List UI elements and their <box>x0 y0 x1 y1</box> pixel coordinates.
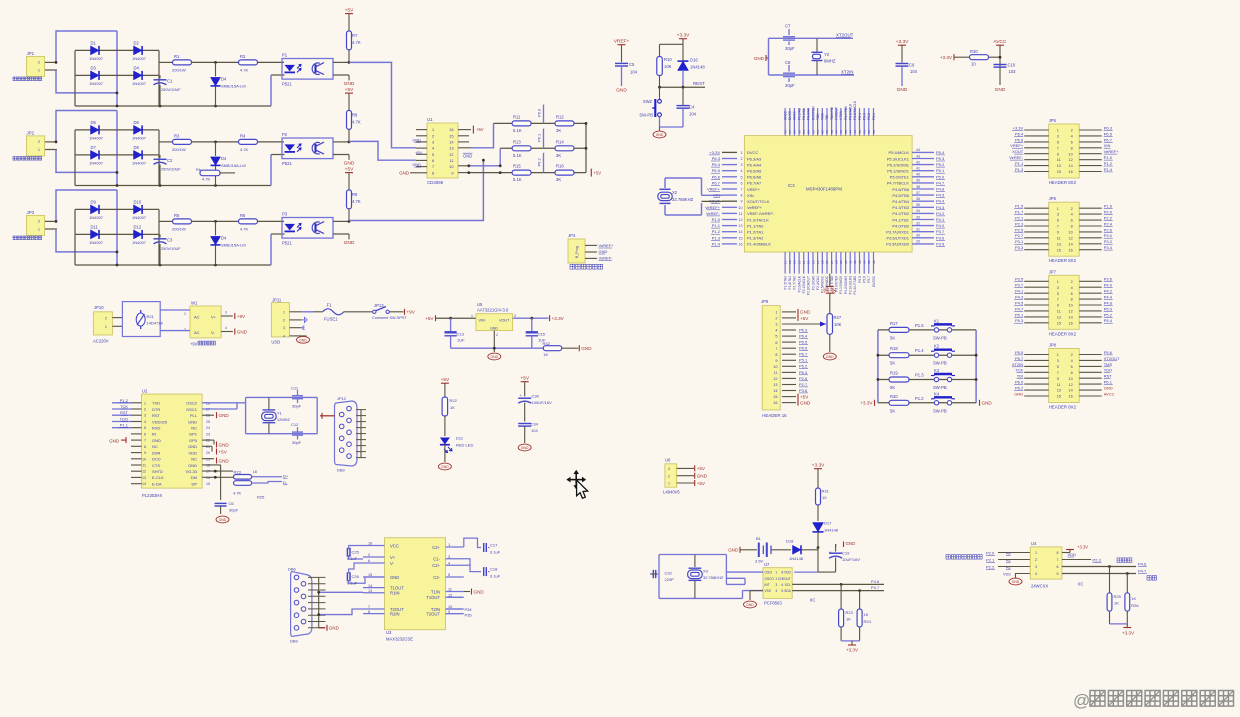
wire MCU left pin 3 <box>722 164 737 166</box>
svg-text:3: 3 <box>740 163 742 167</box>
svg-text:R21: R21 <box>147 314 155 319</box>
svg-text:29: 29 <box>916 240 920 244</box>
svg-text:P521: P521 <box>282 240 292 245</box>
svg-text:5.1K: 5.1K <box>513 153 522 158</box>
svg-text:P5.2/SOMI1: P5.2/SOMI1 <box>887 162 910 167</box>
wire usb gnd <box>301 335 306 338</box>
wire header pin row <box>1024 225 1049 227</box>
svg-text:+5V: +5V <box>345 7 354 13</box>
resistor R14 <box>555 146 574 151</box>
svg-text:AC220V: AC220V <box>93 339 109 344</box>
svg-text:38: 38 <box>916 185 920 189</box>
svg-text:1N4148: 1N4148 <box>824 528 839 533</box>
svg-text:P5.3/UCLK1: P5.3/UCLK1 <box>887 156 910 161</box>
svg-text:P4.5: P4.5 <box>936 193 945 198</box>
svg-text:C4: C4 <box>689 105 695 110</box>
svg-text:3: 3 <box>1057 213 1059 217</box>
svg-text:P5.6: P5.6 <box>1104 350 1113 355</box>
svg-text:22: 22 <box>807 260 811 264</box>
wire header pin row <box>1024 165 1049 167</box>
svg-text:46: 46 <box>839 130 843 134</box>
svg-text:P6.4: P6.4 <box>712 162 721 167</box>
svg-text:C2-: C2- <box>433 575 440 580</box>
wire <box>660 43 684 45</box>
wire header pin row <box>1024 389 1049 391</box>
svg-text:D-: D- <box>283 480 288 485</box>
wire MCU top pin <box>817 108 819 136</box>
crystal Y1 12MHZ loop <box>202 402 246 404</box>
svg-text:P4.1/TB1: P4.1/TB1 <box>892 217 909 222</box>
ground usb <box>297 336 310 343</box>
svg-text:2: 2 <box>38 140 40 144</box>
svg-text:3: 3 <box>432 140 434 145</box>
svg-text:11: 11 <box>1057 383 1061 387</box>
wire rtc osc pins <box>726 571 763 573</box>
wire k row <box>878 354 976 356</box>
svg-text:P6.6: P6.6 <box>799 346 808 351</box>
svg-text:P521: P521 <box>282 81 292 86</box>
ground u5 <box>493 331 495 352</box>
svg-text:P4.6: P4.6 <box>1138 561 1147 566</box>
svg-text:GP1: GP1 <box>189 432 198 437</box>
wire header pin row <box>1024 207 1049 209</box>
power +9V sw <box>404 309 406 315</box>
svg-text:P1.4: P1.4 <box>712 241 721 246</box>
power +3.3V u4 <box>1062 552 1070 554</box>
svg-text:28: 28 <box>835 260 839 264</box>
svg-text:AVSS: AVSS <box>793 111 797 120</box>
resistor R16 <box>555 170 574 175</box>
svg-text:JP3: JP3 <box>27 210 35 215</box>
svg-text:4.7K: 4.7K <box>233 491 242 496</box>
button K4 SW-PB <box>934 401 938 405</box>
wire U2 left pin <box>131 464 142 466</box>
svg-text:250V/10UF: 250V/10UF <box>161 87 181 92</box>
wire u5 out <box>513 317 549 319</box>
svg-text:P4.4: P4.4 <box>936 199 945 204</box>
svg-text:+3.3V: +3.3V <box>677 33 690 39</box>
resistor pack R24 <box>234 475 252 480</box>
svg-text:P6.4: P6.4 <box>1015 131 1024 136</box>
wire xt2 loop <box>768 38 770 75</box>
svg-text:16: 16 <box>1068 395 1072 399</box>
svg-text:RST: RST <box>120 410 129 415</box>
svg-text:250V/10UF: 250V/10UF <box>161 246 181 251</box>
svg-text:1: 1 <box>740 151 742 155</box>
wire header pin row <box>1024 365 1049 367</box>
svg-text:P4.4/TB4: P4.4/TB4 <box>892 199 909 204</box>
wire u3 left stub <box>363 613 385 615</box>
svg-text:GND: GND <box>800 310 811 315</box>
svg-text:P2.2: P2.2 <box>1104 216 1113 221</box>
svg-text:P5.7: P5.7 <box>867 276 871 283</box>
wire JP9 pin row <box>782 390 796 392</box>
svg-text:18: 18 <box>206 464 210 468</box>
svg-text:6: 6 <box>1071 141 1073 145</box>
svg-text:K2: K2 <box>934 344 940 349</box>
svg-text:@: @ <box>1073 691 1090 710</box>
wire k row <box>878 379 976 381</box>
capacitor C10 <box>994 64 1007 66</box>
svg-text:P5.1/SIMO1: P5.1/SIMO1 <box>887 169 910 174</box>
svg-text:USB: USB <box>271 340 280 345</box>
power GND u2 pin18 <box>202 458 214 460</box>
svg-text:D+: D+ <box>283 474 289 479</box>
svg-text:17: 17 <box>783 260 787 264</box>
svg-text:5: 5 <box>775 335 777 339</box>
svg-text:D4: D4 <box>221 76 227 81</box>
svg-text:4.7K: 4.7K <box>240 147 249 152</box>
svg-text:JP9: JP9 <box>761 299 769 304</box>
wire <box>116 31 118 106</box>
svg-text:P5.5: P5.5 <box>858 276 862 283</box>
svg-text:P3.6: P3.6 <box>799 388 808 393</box>
wire header pin row <box>1024 249 1049 251</box>
svg-text:PCF8563: PCF8563 <box>764 601 782 606</box>
wire u3 left stub <box>363 576 385 578</box>
svg-text:GND: GND <box>463 154 472 159</box>
wire u3 right stub <box>446 608 464 610</box>
svg-text:33: 33 <box>858 260 862 264</box>
svg-text:27: 27 <box>830 260 834 264</box>
svg-text:P2.0/ACLK: P2.0/ACLK <box>797 275 801 292</box>
connector JP2 <box>27 136 45 156</box>
svg-text:+3.3V: +3.3V <box>1122 631 1135 636</box>
svg-text:TXD: TXD <box>152 401 160 406</box>
svg-text:15: 15 <box>1057 170 1061 174</box>
wire <box>74 130 76 186</box>
wire MCU left pin 4 <box>722 170 737 172</box>
capacitor C34 104 <box>518 423 531 425</box>
svg-text:P1.2: P1.2 <box>1104 161 1113 166</box>
wire header pin row <box>1024 213 1049 215</box>
svg-text:P4.2: P4.2 <box>936 211 945 216</box>
svg-text:31: 31 <box>849 260 853 264</box>
svg-text:V-: V- <box>211 330 215 335</box>
ground c6 <box>216 516 229 523</box>
svg-text:R20: R20 <box>890 394 898 399</box>
wire u3 left stub <box>363 608 385 610</box>
svg-text:AVCC: AVCC <box>783 110 787 120</box>
wire MCU bottom pin <box>803 252 805 274</box>
svg-text:TCK: TCK <box>1015 368 1023 373</box>
svg-text:R7: R7 <box>352 33 358 38</box>
svg-text:P1.3/TA2: P1.3/TA2 <box>747 236 764 241</box>
power GND r32 <box>578 345 580 351</box>
svg-text:16: 16 <box>1068 248 1072 252</box>
svg-text:P6.5: P6.5 <box>799 340 808 345</box>
svg-text:GND: GND <box>1104 386 1113 391</box>
svg-text:JP12: JP12 <box>337 396 347 401</box>
wire JP9 pin row <box>782 384 796 386</box>
wire header pin row <box>1024 310 1049 312</box>
svg-text:14: 14 <box>1068 316 1072 320</box>
svg-text:D8: D8 <box>134 145 140 150</box>
svg-text:P4.3/TB3: P4.3/TB3 <box>892 205 909 210</box>
svg-text:P2.2: P2.2 <box>986 565 995 570</box>
label P1.1 <box>112 427 131 429</box>
svg-text:VREF-/VeREF-: VREF-/VeREF- <box>747 211 775 216</box>
svg-text:+5V: +5V <box>800 316 809 321</box>
svg-text:JP8: JP8 <box>1049 343 1057 348</box>
svg-text:P6.3/A3: P6.3/A3 <box>747 156 762 161</box>
svg-text:P4.0/TB0: P4.0/TB0 <box>892 223 909 228</box>
svg-text:U1: U1 <box>427 117 433 122</box>
wire U2 left pin <box>131 445 142 447</box>
resistor R23b 1K <box>840 584 842 609</box>
capacitor C6 30pF <box>215 502 227 504</box>
svg-text:32.768KHZ: 32.768KHZ <box>672 197 694 202</box>
wire header pin row <box>1024 135 1049 137</box>
svg-text:DVSS2: DVSS2 <box>872 276 876 287</box>
wire k right bus <box>975 330 977 403</box>
svg-text:30: 30 <box>844 260 848 264</box>
svg-text:P5.1: P5.1 <box>872 113 876 120</box>
svg-text:C9: C9 <box>909 63 915 68</box>
wire u2 pin17 <box>202 464 221 466</box>
svg-text:6: 6 <box>432 158 434 163</box>
svg-text:23: 23 <box>206 432 210 436</box>
wire JP9 pin row <box>782 311 796 313</box>
svg-text:R19: R19 <box>890 371 898 376</box>
wire MCU top pin <box>854 108 856 136</box>
svg-text:P4.3: P4.3 <box>1015 295 1024 300</box>
svg-text:P5.0: P5.0 <box>1104 306 1113 311</box>
wire MCU left pin 8 <box>722 194 737 196</box>
svg-text:4: 4 <box>225 326 227 330</box>
svg-text:53: 53 <box>807 130 811 134</box>
wire JP11 pin <box>289 335 301 337</box>
svg-text:VeREF-: VeREF- <box>599 256 614 261</box>
wire <box>192 61 240 63</box>
svg-text:3.6V: 3.6V <box>755 559 764 564</box>
svg-text:L4940V5: L4940V5 <box>663 490 680 495</box>
svg-text:3: 3 <box>1057 135 1059 139</box>
svg-text:TCK: TCK <box>816 113 820 120</box>
wire u5 bottom rail <box>451 347 544 349</box>
wire MCU right pin <box>912 164 934 166</box>
svg-text:JP5: JP5 <box>1049 118 1057 123</box>
capacitor C1 <box>159 75 161 78</box>
svg-text:2: 2 <box>144 408 146 412</box>
svg-text:1: 1 <box>38 68 40 72</box>
svg-text:C17: C17 <box>490 543 498 548</box>
svg-text:55: 55 <box>797 130 801 134</box>
svg-text:10: 10 <box>1068 377 1072 381</box>
wire <box>271 233 285 235</box>
svg-text:11: 11 <box>1057 310 1061 314</box>
svg-text:Rb: Rb <box>196 168 201 172</box>
svg-text:3: 3 <box>1057 286 1059 290</box>
svg-text:15: 15 <box>206 482 210 486</box>
svg-text:1: 1 <box>38 148 40 152</box>
svg-text:GND: GND <box>616 88 627 94</box>
svg-text:K4: K4 <box>934 391 940 396</box>
svg-text:P4.2: P4.2 <box>1104 289 1113 294</box>
diode D8 <box>134 150 143 159</box>
svg-text:8: 8 <box>740 194 742 198</box>
svg-text:R5: R5 <box>174 213 180 218</box>
svg-text:C11: C11 <box>291 386 299 391</box>
wire MCU top pin <box>859 108 861 136</box>
resistor R3 <box>173 139 192 144</box>
svg-text:5: 5 <box>782 589 784 593</box>
svg-text:P2.1/INCLK: P2.1/INCLK <box>802 275 806 293</box>
svg-text:U4: U4 <box>1031 541 1037 546</box>
wire <box>159 220 173 222</box>
wire MCU bottom pin <box>845 252 847 274</box>
svg-text:SW-PB: SW-PB <box>933 385 947 390</box>
wire k row <box>878 329 976 331</box>
svg-text:5.1K: 5.1K <box>513 128 522 133</box>
svg-text:D7: D7 <box>91 145 97 150</box>
svg-text:GND: GND <box>846 541 856 546</box>
svg-text:8: 8 <box>144 445 146 449</box>
svg-text:8MHZ: 8MHZ <box>824 59 836 64</box>
svg-text:11: 11 <box>142 464 146 468</box>
svg-text:GND: GND <box>581 346 592 351</box>
svg-text:1: 1 <box>283 310 285 314</box>
wire <box>270 234 272 265</box>
svg-text:+5V: +5V <box>520 376 529 382</box>
wire MCU bottom pin <box>807 252 809 274</box>
svg-text:10: 10 <box>971 62 976 67</box>
svg-text:43: 43 <box>853 130 857 134</box>
svg-text:44: 44 <box>849 130 853 134</box>
svg-text:10: 10 <box>1068 152 1072 156</box>
svg-text:P2.5: P2.5 <box>1015 227 1024 232</box>
wire XOUT <box>702 200 723 202</box>
wire <box>270 75 272 106</box>
svg-text:2: 2 <box>38 219 40 223</box>
svg-text:7: 7 <box>1057 298 1059 302</box>
power +3.3V u4 pullups <box>1126 624 1128 628</box>
wire right bus <box>585 123 587 172</box>
wire <box>271 154 285 156</box>
svg-text:P5.4: P5.4 <box>858 113 862 120</box>
svg-text:1: 1 <box>144 401 146 405</box>
svg-text:R23: R23 <box>846 610 854 615</box>
wire JP9 pin row <box>782 402 796 404</box>
svg-text:50: 50 <box>821 130 825 134</box>
diode D10 <box>134 205 143 214</box>
wire db9 pins <box>356 409 366 411</box>
capacitor C15 1UF <box>531 318 533 331</box>
svg-text:1K: 1K <box>1114 601 1119 606</box>
svg-text:5: 5 <box>1057 572 1059 576</box>
svg-text:14: 14 <box>773 389 777 393</box>
svg-text:4: 4 <box>1071 135 1073 139</box>
svg-text:P6.3: P6.3 <box>712 156 721 161</box>
wire MCU right pin <box>912 176 934 178</box>
svg-text:D9: D9 <box>91 199 97 204</box>
wire U1 pin stub <box>416 147 427 149</box>
svg-text:GND: GND <box>109 439 119 444</box>
svg-text:C8: C8 <box>785 60 791 65</box>
wire net A to U1 pin4 <box>349 62 416 147</box>
button K3 SW-PB <box>934 377 938 381</box>
svg-text:9: 9 <box>740 200 742 204</box>
svg-text:P1.3: P1.3 <box>712 235 721 240</box>
svg-text:GND: GND <box>490 327 498 331</box>
resistor R2 <box>239 60 258 65</box>
wire JP9 pin row <box>782 341 796 343</box>
svg-text:4: 4 <box>1071 359 1073 363</box>
svg-text:12: 12 <box>1068 158 1072 162</box>
svg-text:GND: GND <box>219 442 230 447</box>
svg-text:AVCC: AVCC <box>994 39 1008 45</box>
svg-text:D11: D11 <box>91 224 99 229</box>
svg-text:58: 58 <box>783 130 787 134</box>
svg-text:TDO: TDO <box>1104 368 1112 373</box>
svg-text:VOUT: VOUT <box>499 319 510 323</box>
wire <box>771 549 791 551</box>
svg-text:8: 8 <box>1057 551 1059 555</box>
svg-text:P6.6: P6.6 <box>712 174 721 179</box>
svg-text:39: 39 <box>916 179 920 183</box>
capacitor C4 <box>682 87 684 105</box>
wire <box>333 154 349 156</box>
svg-text:P3.7: P3.7 <box>936 229 945 234</box>
power +5V u5 <box>435 315 437 321</box>
svg-text:200/1W: 200/1W <box>172 147 186 152</box>
wire U2 left pin <box>131 408 142 410</box>
wire to D+ D- <box>252 476 282 478</box>
resistor R32 1K <box>543 346 561 351</box>
wire MCU bottom pin <box>873 252 875 274</box>
wire MCU top pin <box>845 108 847 136</box>
wire header pin row <box>1024 231 1049 233</box>
wire <box>344 311 373 313</box>
crystal X3 32.768KHZ loop <box>658 555 660 599</box>
svg-text:11: 11 <box>739 212 743 216</box>
svg-text:R9: R9 <box>352 192 358 197</box>
wire <box>45 141 57 143</box>
svg-text:C26: C26 <box>352 574 360 579</box>
svg-text:P1.0: P1.0 <box>1104 155 1113 160</box>
wire <box>75 74 159 76</box>
svg-text:36: 36 <box>872 260 876 264</box>
svg-text:P6.7: P6.7 <box>1104 137 1113 142</box>
svg-text:RED LED: RED LED <box>456 443 473 448</box>
wire MCU left pin 16 <box>722 243 737 245</box>
power +5V <box>590 169 592 177</box>
svg-text:GND: GND <box>599 249 608 254</box>
svg-text:P5.0: P5.0 <box>936 174 945 179</box>
wire <box>258 61 285 63</box>
svg-text:D4: D4 <box>221 156 227 161</box>
svg-text:4: 4 <box>775 329 777 333</box>
svg-text:16: 16 <box>1068 170 1072 174</box>
svg-text:TCK: TCK <box>120 404 128 409</box>
wire JP4 pin <box>585 244 597 246</box>
wire MCU left pin 1 <box>722 151 737 153</box>
wire <box>682 39 684 61</box>
wire MCU bottom pin <box>812 252 814 274</box>
wire SCL <box>792 583 884 585</box>
svg-text:100UF/16V: 100UF/16V <box>532 400 553 405</box>
diode D5 <box>91 125 100 134</box>
wire U1 pin10 <box>458 165 469 167</box>
switch SW2 SW-PB <box>659 87 661 99</box>
svg-text:P6.7/A7: P6.7/A7 <box>747 181 762 186</box>
wire <box>348 155 350 160</box>
wire MCU right pin <box>912 231 934 233</box>
wire <box>75 154 159 156</box>
svg-text:9: 9 <box>775 359 777 363</box>
svg-text:P2.4: P2.4 <box>1104 221 1113 226</box>
ground u7 <box>750 590 763 592</box>
